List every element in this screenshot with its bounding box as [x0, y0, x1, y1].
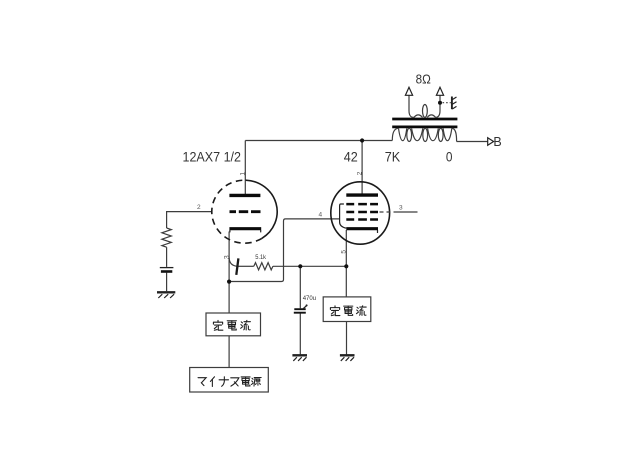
- junction node secondary ground tap: [438, 101, 442, 105]
- minus power-supply box: [190, 368, 269, 393]
- wire: V1 cathode down to constant-current box: [228, 232, 230, 314]
- ground G3 below box 2: [340, 355, 355, 361]
- battery B1 short thick plate: [161, 270, 172, 273]
- svg-text:B: B: [493, 135, 501, 149]
- svg-text:42: 42: [344, 149, 358, 165]
- capacitor C1 polarity tick: [303, 306, 307, 310]
- wire: cathode resistor line left segment: [239, 265, 254, 267]
- wire: box1 to minus-supply box: [228, 336, 230, 368]
- svg-text:3: 3: [399, 204, 403, 211]
- junction node V2 cathode: [344, 264, 348, 268]
- svg-text:1: 1: [240, 172, 247, 176]
- box 2 label 定電流: [330, 306, 339, 316]
- tube V2 grid 2 dashed bar: [346, 211, 378, 214]
- tube V2 beam plate bracket: [340, 204, 347, 228]
- wire: cathode resistor line to node K2: [273, 265, 346, 267]
- tube V2 plate bar: [346, 193, 378, 196]
- transformer T1 core bar lower: [392, 126, 457, 129]
- junction node K2 cap branch: [298, 264, 302, 268]
- wire: V2 grid pin 4 return path to V1 cathode: [229, 219, 339, 282]
- wire: cathode branch curve to 5.1k resistor: [229, 258, 238, 267]
- svg-text:4: 4: [319, 212, 323, 219]
- capacitor C1 470u bottom plate: [294, 312, 306, 314]
- wire: R1 to battery: [166, 247, 168, 267]
- wire: V2 screen grid pin 3 lead: [396, 211, 418, 213]
- svg-text:0: 0: [446, 149, 453, 165]
- capacitor C1 470u top plate: [294, 308, 305, 310]
- svg-text:5.1k: 5.1k: [255, 254, 267, 261]
- ground G2 below C1: [292, 355, 307, 361]
- B terminal arrow: [488, 138, 494, 146]
- cathode tick slash: [236, 258, 238, 275]
- wire: battery to ground: [166, 273, 168, 292]
- tube V2 cathode bar leg: [377, 230, 379, 233]
- tube V1 cathode bar legs: [230, 230, 261, 232]
- wire: dotted link to secondary ground: [443, 102, 451, 104]
- svg-text:470u: 470u: [303, 295, 317, 302]
- tube V2 cathode bar: [346, 227, 378, 230]
- tube V2 grid 3 dashed bar: [346, 218, 378, 221]
- ground G1 bias network: [157, 292, 175, 298]
- tube V2 42 envelope: [331, 182, 390, 244]
- tube V2 grid 1 dashed bar: [346, 203, 378, 206]
- wire: V2 screen grid pin 3 lead dashed part: [380, 211, 397, 213]
- wire: V2 cathode pin 5 down to constant-current box: [345, 230, 347, 297]
- battery B1 long plate: [160, 267, 174, 269]
- wire: constant-current box 2 to ground: [346, 322, 348, 355]
- svg-text:2: 2: [197, 204, 201, 211]
- junction node V1 cathode / grid2 return: [227, 280, 231, 284]
- resistor R2 5.1k: [254, 263, 273, 270]
- ground G4 secondary (rotated): [452, 97, 457, 110]
- wire: transformer 0 terminal to B terminal: [457, 141, 488, 143]
- svg-text:8Ω: 8Ω: [416, 72, 431, 86]
- junction node B+ rail at V2 plate: [360, 138, 364, 142]
- svg-text:2: 2: [356, 171, 363, 175]
- tube V1 12AX7 envelope dashed arc: [212, 180, 262, 243]
- tube V1 grid dashed bar: [230, 210, 261, 213]
- wire: V1 plate pin 1 riser: [244, 141, 246, 195]
- wire: V2 plate pin 2 riser: [361, 141, 363, 195]
- tube V1 plate bar: [229, 194, 260, 197]
- transformer T1 core bar upper: [392, 118, 457, 121]
- constant-current box 1: [206, 313, 261, 336]
- tube V1 cathode bar: [229, 227, 261, 230]
- transformer secondary left arrow terminal: [405, 87, 412, 95]
- transformer T1 primary winding: [392, 128, 456, 141]
- tube V1 12AX7 envelope solid arc: [246, 180, 278, 238]
- box 3 label マイナス電源: [198, 378, 206, 386]
- wire: top B+ rail from V1 plate to transformer: [245, 140, 392, 142]
- constant-current box 2: [323, 297, 371, 322]
- svg-text:3: 3: [222, 255, 231, 259]
- wire: node K2 down 470u capacitor branch: [299, 266, 301, 308]
- resistor R1 grid bias: [162, 228, 171, 247]
- svg-text:7K: 7K: [385, 149, 401, 165]
- wire: 470u capacitor to ground: [299, 314, 301, 355]
- box 1 label 定電流: [213, 320, 222, 330]
- wire: V1 grid pin 2 lead to bias network: [167, 212, 212, 228]
- svg-text:5: 5: [340, 250, 347, 254]
- transformer T1 secondary winding: [409, 95, 440, 117]
- svg-text:12AX7 1/2: 12AX7 1/2: [183, 149, 242, 165]
- transformer secondary right arrow terminal: [436, 87, 443, 95]
